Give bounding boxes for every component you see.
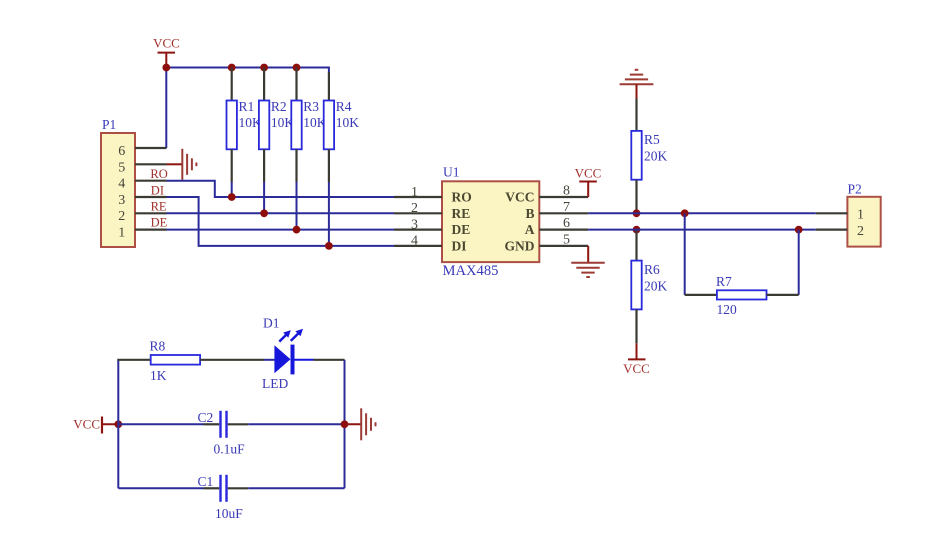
capacitor C1 bbox=[198, 474, 249, 521]
svg-text:5: 5 bbox=[118, 160, 125, 175]
svg-text:RO: RO bbox=[150, 167, 167, 181]
wire bottom-left left riser bbox=[117, 360, 119, 489]
wire P1 pin6 riser to VCC bus bbox=[165, 68, 167, 149]
svg-text:6: 6 bbox=[563, 216, 570, 231]
svg-text:5: 5 bbox=[563, 232, 570, 247]
pin U1-6 bbox=[539, 216, 588, 231]
resistor R6 bbox=[631, 230, 667, 344]
pin U1-8 bbox=[539, 184, 588, 199]
wire C1 row left segment bbox=[118, 487, 203, 489]
pin U1-1 bbox=[394, 185, 442, 200]
wire A net (U1-6 to P2-2) bbox=[588, 229, 816, 231]
svg-text:B: B bbox=[525, 206, 534, 221]
wire R7 right riser bbox=[798, 230, 800, 295]
node R5 / B junction bbox=[633, 209, 641, 217]
svg-text:RE: RE bbox=[151, 199, 167, 213]
svg-text:C1: C1 bbox=[198, 474, 214, 489]
svg-text:4: 4 bbox=[118, 177, 125, 192]
wire RE net (P1-2 to U1-2) bbox=[167, 212, 395, 214]
svg-text:VCC: VCC bbox=[505, 190, 534, 205]
power port VCC (top left) bbox=[153, 36, 180, 68]
node VCC / bottom-left net junction bbox=[114, 420, 122, 428]
wire B net (U1-7 to P2-1) bbox=[588, 212, 816, 214]
svg-text:10uF: 10uF bbox=[215, 506, 243, 521]
svg-text:U1: U1 bbox=[443, 165, 460, 180]
power port VCC (bottom left) bbox=[73, 417, 118, 434]
node R1 top junction bbox=[228, 64, 236, 72]
svg-text:DE: DE bbox=[151, 216, 168, 230]
svg-text:P2: P2 bbox=[848, 182, 862, 197]
wire top VCC bus bbox=[166, 67, 329, 69]
svg-text:7: 7 bbox=[563, 200, 570, 215]
wire R4 bottom to DI net bbox=[328, 182, 330, 246]
node RE / R2 junction bbox=[260, 209, 268, 217]
ground (U1 pin 5) bbox=[571, 246, 604, 277]
resistor R8 bbox=[150, 339, 265, 383]
svg-text:1K: 1K bbox=[150, 368, 167, 383]
svg-text:2: 2 bbox=[118, 209, 125, 224]
svg-text:4: 4 bbox=[411, 234, 418, 249]
ground (top, above R5) bbox=[620, 70, 654, 99]
node C2 net / ground junction bbox=[341, 420, 349, 428]
pin U1-5 bbox=[539, 232, 588, 247]
wire D1 to right riser bbox=[314, 359, 345, 361]
capacitor C2 bbox=[198, 410, 249, 457]
resistor R4 bbox=[324, 67, 360, 183]
wire R2 bottom to RE net bbox=[263, 182, 265, 213]
node RO / R1 junction bbox=[228, 193, 236, 201]
LED D1 bbox=[262, 316, 314, 392]
svg-text:20K: 20K bbox=[644, 149, 668, 164]
svg-text:20K: 20K bbox=[644, 279, 668, 294]
node R3 top junction bbox=[293, 64, 301, 72]
pin P1-5 bbox=[135, 163, 167, 165]
svg-text:DI: DI bbox=[151, 183, 164, 197]
pin P2-2 bbox=[816, 229, 848, 231]
pin U1-3 bbox=[394, 217, 442, 232]
svg-text:10K: 10K bbox=[336, 115, 360, 130]
resistor R7 bbox=[685, 274, 799, 317]
svg-text:R7: R7 bbox=[716, 274, 732, 289]
svg-text:3: 3 bbox=[411, 217, 418, 232]
wire bottom-left right riser bbox=[344, 360, 346, 489]
svg-text:VCC: VCC bbox=[153, 36, 180, 51]
node R7 left / B junction bbox=[681, 209, 689, 217]
resistor R5 bbox=[631, 99, 667, 214]
node DE / R3 junction bbox=[293, 226, 301, 234]
pin P1-1 bbox=[135, 229, 167, 231]
svg-text:R4: R4 bbox=[336, 99, 352, 114]
op-amp U1 MAX485 bbox=[442, 165, 539, 279]
svg-text:R6: R6 bbox=[644, 262, 660, 277]
svg-text:DE: DE bbox=[452, 222, 471, 237]
wire C2 row left segment bbox=[118, 423, 203, 425]
power port VCC (below R6) bbox=[623, 343, 650, 376]
svg-text:R2: R2 bbox=[271, 99, 287, 114]
node VCC bus / P1-6 junction bbox=[162, 64, 170, 72]
svg-text:0.1uF: 0.1uF bbox=[214, 441, 246, 456]
svg-text:R8: R8 bbox=[150, 339, 166, 354]
svg-text:R5: R5 bbox=[644, 132, 660, 147]
wire R7 left riser bbox=[684, 213, 686, 295]
pin U1-2 bbox=[394, 201, 442, 216]
pin P1-2 bbox=[135, 212, 167, 214]
node R6 / A junction bbox=[633, 226, 641, 234]
resistor R1 bbox=[227, 68, 263, 183]
svg-text:2: 2 bbox=[857, 224, 864, 239]
wire DE net (P1-1 to U1-3) bbox=[167, 229, 395, 231]
svg-text:R3: R3 bbox=[303, 99, 319, 114]
svg-text:VCC: VCC bbox=[623, 361, 650, 376]
pin P1-6 bbox=[135, 147, 167, 149]
svg-text:RE: RE bbox=[452, 206, 471, 221]
wire R8 to D1 bbox=[264, 359, 274, 361]
pin P2-1 bbox=[816, 212, 848, 214]
wire R1 bottom to RO net bbox=[231, 182, 233, 197]
wire R3 bottom to DE net bbox=[296, 182, 298, 230]
svg-text:D1: D1 bbox=[263, 316, 280, 331]
svg-text:LED: LED bbox=[262, 376, 288, 391]
svg-text:1: 1 bbox=[411, 185, 418, 200]
pin P1-3 bbox=[135, 196, 167, 198]
node DI / R4 junction bbox=[325, 242, 333, 250]
svg-text:DI: DI bbox=[452, 238, 467, 253]
svg-text:A: A bbox=[525, 222, 535, 237]
node R2 top junction bbox=[260, 64, 268, 72]
ground (rotated, bottom-left block) bbox=[345, 408, 376, 440]
svg-text:1: 1 bbox=[857, 208, 864, 223]
wire RO net (P1-4 to U1-1) bbox=[167, 181, 395, 197]
connector P2 bbox=[847, 182, 880, 247]
svg-text:R1: R1 bbox=[239, 99, 255, 114]
node R7 right / A junction bbox=[795, 226, 803, 234]
svg-text:120: 120 bbox=[717, 302, 738, 317]
svg-text:3: 3 bbox=[118, 193, 125, 208]
power port VCC (U1 pin 8) bbox=[575, 166, 602, 198]
svg-text:2: 2 bbox=[411, 201, 418, 216]
wire C2 to right junction bbox=[248, 423, 344, 425]
connector P1 bbox=[101, 117, 135, 247]
pin U1-4 bbox=[394, 234, 442, 249]
svg-text:VCC: VCC bbox=[575, 166, 602, 181]
wire DI net (P1-3 to U1-4) bbox=[167, 197, 395, 246]
pin P1-4 bbox=[135, 180, 167, 182]
wire R8 row left segment bbox=[117, 359, 150, 361]
wire C1 to right riser bbox=[248, 487, 344, 489]
svg-text:RO: RO bbox=[452, 190, 472, 205]
svg-text:C2: C2 bbox=[198, 410, 214, 425]
resistor R2 bbox=[259, 68, 295, 183]
ground (rotated) at P1 pin 5 bbox=[167, 149, 197, 180]
pin U1-7 bbox=[539, 200, 588, 215]
svg-text:P1: P1 bbox=[102, 117, 116, 132]
svg-text:6: 6 bbox=[118, 144, 125, 159]
svg-text:8: 8 bbox=[563, 184, 570, 199]
svg-text:GND: GND bbox=[505, 238, 535, 253]
svg-text:MAX485: MAX485 bbox=[443, 263, 499, 279]
resistor R3 bbox=[291, 68, 327, 183]
svg-text:VCC: VCC bbox=[73, 417, 100, 432]
svg-text:1: 1 bbox=[118, 226, 125, 241]
